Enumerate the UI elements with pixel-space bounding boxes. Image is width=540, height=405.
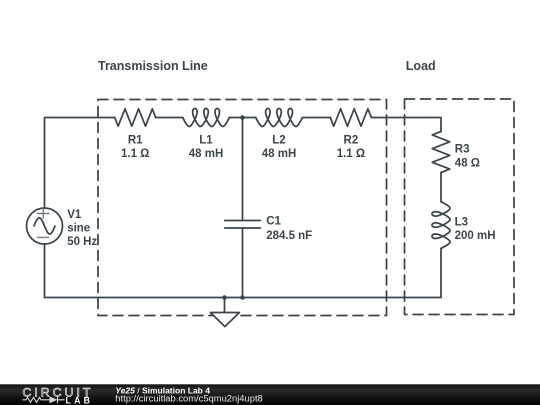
wire L1 to L2 (229, 117, 256, 119)
Load boundary box (405, 99, 515, 315)
svg-text:48 mH: 48 mH (189, 148, 224, 160)
svg-text:Transmission Line: Transmission Line (98, 59, 208, 73)
svg-text:R2: R2 (344, 134, 359, 146)
CircuitLab logo resistor squiggle and diode (23, 396, 65, 403)
node ground junction (222, 295, 227, 300)
wire V1 top to R1 (45, 118, 115, 209)
svg-text:http://circuitlab.com/c5qmu2nj: http://circuitlab.com/c5qmu2nj4upt8 (115, 393, 262, 404)
V1 sine symbol (34, 218, 55, 234)
resistor R1 (115, 109, 156, 126)
wire R1 to L1 (156, 117, 183, 119)
wire C1 bottom branch (242, 228, 244, 298)
node C1 bottom junction (240, 295, 245, 300)
inductor L1 (183, 109, 230, 127)
svg-text:R1: R1 (128, 134, 143, 146)
ground (210, 313, 239, 327)
inductor L3 (432, 202, 450, 249)
resistor R3 (432, 132, 450, 173)
svg-text:LAB: LAB (66, 395, 94, 405)
svg-text:R3: R3 (455, 144, 470, 156)
wire L3 to bottom (440, 248, 442, 297)
svg-text:48 mH: 48 mH (262, 148, 297, 160)
wire bottom rail (45, 297, 442, 299)
svg-text:50 Hz: 50 Hz (67, 236, 97, 248)
wire V1 bottom (44, 244, 46, 298)
V1 minus sign (38, 236, 49, 238)
svg-text:1.1 Ω: 1.1 Ω (337, 148, 365, 160)
svg-text:L2: L2 (272, 134, 285, 146)
wire ground stub (224, 298, 226, 313)
svg-text:C1: C1 (266, 216, 281, 228)
svg-text:Load: Load (406, 59, 436, 73)
V1 plus sign (37, 209, 49, 219)
svg-text:1.1 Ω: 1.1 Ω (121, 148, 149, 160)
wire R2 to R3 (371, 118, 441, 132)
wire C1 top branch (242, 118, 244, 221)
svg-text:V1: V1 (67, 209, 82, 221)
Transmission Line boundary box (98, 100, 387, 316)
svg-text:200 mH: 200 mH (455, 230, 496, 242)
svg-text:L1: L1 (199, 134, 213, 146)
svg-text:sine: sine (67, 223, 90, 235)
svg-text:284.5 nF: 284.5 nF (266, 230, 312, 242)
svg-text:L3: L3 (455, 216, 468, 228)
resistor R2 (330, 109, 371, 126)
capacitor C1 (225, 221, 261, 229)
inductor L2 (256, 109, 302, 127)
wire R3 to L3 (440, 173, 442, 202)
node between L1 and L2 (240, 115, 245, 120)
svg-text:48 Ω: 48 Ω (455, 157, 480, 169)
wire L2 to R2 (302, 117, 330, 119)
voltage source V1 (27, 208, 63, 244)
